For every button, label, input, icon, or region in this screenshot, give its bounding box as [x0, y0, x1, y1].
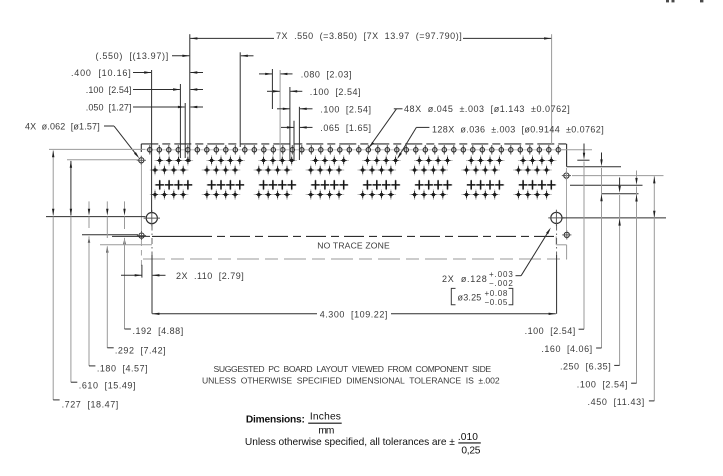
board outline (suggested PCB pattern) [141, 144, 566, 259]
dimensions .080 / .100 / .100 / .065 right stack [259, 69, 371, 160]
svg-text:−.002: −.002 [489, 279, 513, 288]
dimension 7X .550 (=3.850) [7X 13.97 (=97.790)] [190, 31, 552, 162]
mounting hole 4X ø.062 top-left [137, 156, 146, 165]
dimension .292 [7.42] [106, 201, 166, 355]
svg-text:.727 [18.47]: .727 [18.47] [62, 399, 119, 409]
svg-text:.610 [15.49]: .610 [15.49] [79, 381, 136, 391]
svg-text:7X .550 (=3.850) [7X 13.97: 7X .550 (=3.850) [7X 13.97 (=97.790)] [276, 31, 462, 41]
dimension .100 [2.54] right #2 [577, 171, 638, 390]
svg-text:128X ø.036 ±.003 [ø0.9144: 128X ø.036 ±.003 [ø0.9144 ±0.0762] [432, 125, 604, 135]
svg-text:UNLESS OTHERWISE SPECIFIED: UNLESS OTHERWISE SPECIFIED DIMENSIONAL T… [202, 375, 500, 385]
svg-text:.100 [2.54]: .100 [2.54] [320, 104, 371, 114]
centerline left guide hole [151, 225, 153, 256]
dimension .192 [4.88] [123, 201, 183, 335]
svg-text:.100 [2.54]: .100 [2.54] [86, 85, 132, 95]
dimension 2X .110 [2.79] [121, 255, 244, 314]
dimension .450 [11.43] [588, 176, 656, 407]
no trace zone lower boundary (phantom line) [143, 258, 567, 260]
label 128X ø.036 ±.003 with leader [397, 125, 604, 159]
svg-text:mm: mm [318, 426, 334, 437]
svg-text:.100 [2.54]: .100 [2.54] [310, 87, 361, 97]
label NO TRACE ZONE [317, 240, 390, 250]
mounting hole 4X ø.062 bottom-left [137, 231, 146, 240]
label 2X ø.128 +.003/-.002 [ø3.25 +0.08/-0.05] with leader [442, 228, 551, 307]
right extension lines [559, 150, 667, 218]
svg-text:SUGGESTED PC BOARD LAYOUT: SUGGESTED PC BOARD LAYOUT VIEWED FROM CO… [214, 364, 492, 374]
svg-text:.250 [6.35]: .250 [6.35] [560, 362, 611, 372]
dimension .160 [4.06] [541, 153, 602, 354]
svg-text:.292 [7.42]: .292 [7.42] [115, 345, 166, 355]
svg-text:NO TRACE ZONE: NO TRACE ZONE [317, 240, 390, 250]
cropped text fragment top edge [666, 0, 703, 2]
svg-text:2X .110 [2.79]: 2X .110 [2.79] [176, 271, 244, 281]
svg-text:48X ø.045 ±.003 [ø1.143 ±0: 48X ø.045 ±.003 [ø1.143 ±0.0762] [404, 104, 570, 114]
guide hole 2X ø.128 right [548, 210, 564, 226]
svg-text:Inches: Inches [310, 411, 341, 422]
svg-text:2X ø.128: 2X ø.128 [442, 274, 487, 284]
label 4X ø.062 [ø1.57] with leader [25, 122, 139, 159]
left extension lines [46, 149, 152, 244]
svg-text:.065 [1.65]: .065 [1.65] [320, 123, 371, 133]
svg-text:−0.05: −0.05 [485, 298, 508, 307]
svg-text:.192 [4.88]: .192 [4.88] [133, 326, 184, 336]
svg-text:(.550) [(13.97)]: (.550) [(13.97)] [96, 51, 169, 61]
note line 2 [202, 375, 500, 385]
svg-text:ø3.25: ø3.25 [458, 292, 482, 302]
svg-text:Unless otherwise specified, al: Unless otherwise specified, all toleranc… [245, 437, 455, 448]
top row: 48X ø.045 plated holes [146, 145, 562, 154]
mounting hole 4X ø.062 bottom-right [562, 230, 571, 239]
mounting hole 4X ø.062 top-right [562, 171, 571, 180]
dimension .100 [2.54] right #1 [525, 144, 586, 337]
guide hole 2X ø.128 left [144, 210, 160, 226]
label 48X ø.045 ±.003 with leader [369, 104, 570, 148]
svg-text:4.300 [109.22]: 4.300 [109.22] [320, 309, 388, 319]
dimension 4.300 [109.22] [152, 255, 556, 319]
svg-text:+0.08: +0.08 [485, 289, 508, 298]
svg-text:.450 [11.43]: .450 [11.43] [588, 397, 645, 407]
svg-text:4X ø.062 [ø1.57]: 4X ø.062 [ø1.57] [25, 122, 100, 132]
centerline left hole column [140, 165, 142, 266]
dimension .180 [4.57] [88, 201, 148, 373]
dimension .610 [15.49] [70, 161, 136, 391]
svg-text:.160 [4.06]: .160 [4.06] [541, 344, 592, 354]
centerline right guide hole [556, 225, 558, 256]
dimension .250 [6.35] [560, 178, 621, 372]
svg-text:.100 [2.54]: .100 [2.54] [525, 326, 576, 336]
dimension (.550) [(13.97)] group pitch [96, 51, 254, 147]
svg-text:Dimensions:: Dimensions: [246, 415, 305, 426]
svg-text:.400 [10.16]: .400 [10.16] [71, 68, 131, 78]
dimensions .400 / .100 / .050 left stack [71, 68, 203, 212]
svg-text:0,25: 0,25 [461, 445, 480, 456]
note line 1 [214, 364, 492, 374]
svg-text:.050 [1.27]: .050 [1.27] [86, 103, 132, 113]
svg-text:.180 [4.57]: .180 [4.57] [97, 364, 148, 374]
svg-text:.080 [2.03]: .080 [2.03] [301, 70, 352, 80]
signal pads: 128X ø.036 in 8 groups [150, 155, 557, 200]
dimension .727 [18.47] [52, 150, 119, 409]
centerline right hole column [566, 168, 568, 232]
svg-text:.010: .010 [458, 432, 478, 443]
svg-text:.100 [2.54]: .100 [2.54] [577, 379, 628, 389]
dimensions units note [245, 411, 481, 456]
